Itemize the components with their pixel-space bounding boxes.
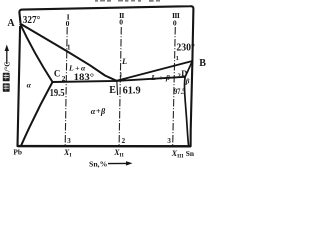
eutectic isotherm C-E-D: [53, 77, 186, 82]
cutoff text remnant top: [95, 0, 160, 2]
liquidus A-E: [20, 24, 117, 81]
y-axis label "wen" glyph block: [3, 83, 10, 91]
svg-text:230°: 230°: [176, 43, 195, 54]
node E vertical segment: [116, 81, 119, 95]
solidus B-D: [185, 61, 192, 77]
bottom axis (slightly thicker): [18, 145, 191, 148]
alloy line I (dash-dot): [65, 27, 67, 145]
svg-text:A: A: [7, 18, 15, 29]
svg-text:XIII: XIII: [171, 149, 184, 160]
svg-text:2: 2: [62, 74, 66, 83]
svg-text:α+β: α+β: [91, 107, 106, 116]
liquidus B-E: [117, 61, 193, 81]
svg-text:0: 0: [173, 19, 177, 28]
svg-text:1: 1: [176, 55, 179, 62]
svg-text:E: E: [109, 85, 116, 96]
alloy line II (dash-dot): [119, 27, 121, 145]
svg-text:XI: XI: [63, 148, 71, 159]
svg-text:β: β: [185, 78, 190, 86]
beta solvus D-bottom: [185, 77, 189, 146]
svg-text:α: α: [27, 81, 32, 90]
alloy line III (dash-dot): [173, 27, 176, 145]
svg-text:B: B: [199, 58, 206, 69]
svg-text:/°C: /°C: [4, 62, 12, 73]
svg-text:19.5: 19.5: [50, 88, 65, 99]
svg-text:183°: 183°: [74, 72, 95, 83]
svg-text:L+β: L+β: [150, 73, 170, 82]
svg-text:1: 1: [119, 71, 122, 78]
solidus A-C: [20, 24, 53, 83]
svg-text:L: L: [121, 57, 127, 66]
svg-text:Sn: Sn: [186, 149, 194, 158]
svg-text:97.5: 97.5: [174, 86, 186, 96]
svg-text:C: C: [54, 69, 61, 79]
svg-text:1: 1: [67, 43, 71, 51]
frame box: [18, 6, 194, 146]
y-axis arrow: [6, 49, 8, 64]
svg-text:0: 0: [119, 18, 123, 27]
svg-text:3: 3: [67, 137, 71, 145]
svg-text:3: 3: [167, 137, 171, 145]
svg-text:327°: 327°: [23, 15, 41, 26]
svg-text:2: 2: [122, 137, 126, 145]
svg-text:0: 0: [66, 19, 70, 28]
svg-text:Pb: Pb: [13, 148, 22, 157]
svg-text:Sn,%: Sn,%: [89, 160, 108, 169]
svg-text:XII: XII: [113, 148, 124, 159]
y-axis label "du" glyph block: [3, 73, 10, 81]
svg-text:L+α: L+α: [68, 64, 86, 73]
x-axis arrow: [108, 162, 128, 164]
svg-text:61.9: 61.9: [123, 86, 141, 97]
alpha solvus C-Pb corner: [21, 82, 53, 146]
